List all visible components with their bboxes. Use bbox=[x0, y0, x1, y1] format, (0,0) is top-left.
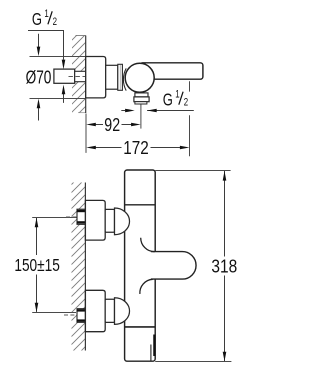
svg-text:2: 2 bbox=[184, 96, 188, 109]
lever bottom curl bbox=[140, 279, 153, 294]
svg-text:1: 1 bbox=[175, 88, 179, 101]
dimension Ø70 arrows bbox=[38, 34, 40, 47]
svg-text:2: 2 bbox=[53, 16, 57, 29]
arrow right toward nipple left edge bbox=[121, 110, 125, 112]
top inlet dome boss bbox=[115, 208, 130, 235]
centerline/extension top connection bbox=[32, 217, 77, 219]
dimension 150±15 bbox=[36, 218, 38, 255]
lever loop (front view) fill bbox=[151, 252, 196, 280]
label G1/2 (bottom, outlet) bbox=[163, 88, 188, 110]
extension line 318 top bbox=[155, 170, 230, 172]
extension line 172 right bbox=[189, 81, 191, 91]
svg-text:172: 172 bbox=[123, 138, 148, 159]
label G1/2 (top) bbox=[32, 8, 57, 30]
housing neck bbox=[106, 65, 118, 89]
dimension 172 bbox=[95, 147, 122, 149]
wall hatching (side view) bbox=[72, 35, 86, 113]
joint ring bbox=[118, 64, 123, 90]
centerline/extension bottom connection bbox=[32, 312, 76, 314]
faucet body (front view) bbox=[125, 170, 156, 361]
extension line 318 bottom bbox=[155, 361, 231, 363]
bottom union nut bbox=[105, 299, 114, 322]
S-union nut (pipe, wall connection) bbox=[54, 69, 75, 83]
svg-text:Ø70: Ø70 bbox=[26, 67, 52, 87]
outlet nipple G1/2 bbox=[135, 102, 147, 104]
svg-text:1: 1 bbox=[44, 8, 48, 21]
svg-text:150±15: 150±15 bbox=[14, 256, 60, 275]
svg-text:92: 92 bbox=[104, 115, 120, 135]
spout fitting nut bbox=[134, 97, 149, 102]
ring inner line bbox=[119, 65, 121, 90]
wall face line bbox=[85, 36, 87, 114]
arrow down to pipe top bbox=[62, 60, 66, 70]
arrowhead leader (points left at nipple) bbox=[147, 109, 157, 113]
lever top curl bbox=[141, 238, 155, 252]
bottom inner vertical line bbox=[150, 345, 152, 362]
lever handle (side view bar) bbox=[140, 63, 203, 79]
extension line wall face (92/172) bbox=[85, 114, 87, 153]
svg-text:G: G bbox=[32, 10, 42, 29]
wall top cap line bbox=[76, 35, 86, 37]
bottom right thick edge bbox=[153, 335, 155, 357]
wall face line (front view) bbox=[84, 183, 86, 351]
extension line spout center (92) bbox=[140, 105, 142, 129]
bottom wall stub (hex union in wall) bbox=[77, 309, 85, 323]
escutcheon (wall rosette, side view) bbox=[86, 57, 106, 98]
body parting line lower bbox=[125, 326, 156, 328]
dimension 318 bbox=[224, 171, 226, 257]
dimension 92 bbox=[95, 124, 103, 126]
extension line bottom (escutcheon bottom, for Ø70) bbox=[30, 98, 86, 100]
S-union tube through wall bbox=[75, 71, 86, 81]
pipe centerline (dashes) bbox=[69, 76, 86, 78]
spout collar bbox=[135, 93, 148, 97]
arrow up to pipe bottom bbox=[63, 94, 65, 103]
leader line G1/2 top bbox=[28, 31, 64, 60]
extension line top (escutcheon top, for Ø70) bbox=[30, 56, 86, 58]
leader line G1/2 bottom bbox=[147, 110, 194, 112]
top wall stub (hex union in wall) bbox=[77, 209, 85, 224]
svg-text:318: 318 bbox=[211, 257, 237, 277]
wall hatching (front view) bbox=[72, 183, 86, 351]
bottom escutcheon (front view) bbox=[85, 290, 105, 331]
back flange crescent arc bbox=[123, 68, 126, 90]
bottom inlet dome boss bbox=[115, 298, 130, 325]
svg-text:G: G bbox=[163, 90, 173, 109]
top union nut bbox=[105, 209, 114, 232]
lever loop outline bbox=[151, 252, 196, 280]
wall bottom cap line bbox=[78, 112, 86, 114]
top escutcheon (front view) bbox=[85, 200, 105, 240]
thermostat body circle bbox=[125, 63, 154, 92]
body parting line upper bbox=[125, 204, 156, 206]
